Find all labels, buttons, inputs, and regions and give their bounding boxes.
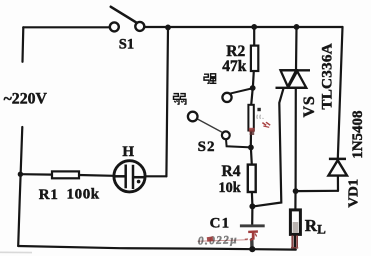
svg-text:R1: R1 [39, 187, 59, 203]
svg-text:S1: S1 [119, 36, 134, 52]
svg-text:1N5408: 1N5408 [350, 110, 366, 158]
svg-text:S2: S2 [198, 139, 216, 155]
svg-text:100k: 100k [67, 187, 100, 203]
svg-text:10k: 10k [219, 180, 241, 196]
svg-text:C1: C1 [210, 216, 231, 232]
svg-text:R4: R4 [222, 163, 241, 180]
svg-text:0.022μ: 0.022μ [198, 234, 238, 247]
svg-text:TLC336A: TLC336A [318, 43, 335, 109]
svg-text:VD1: VD1 [347, 179, 362, 208]
svg-text:47k: 47k [222, 58, 247, 75]
svg-text:H: H [122, 144, 134, 160]
svg-text:VS: VS [301, 95, 318, 117]
svg-text:~220V: ~220V [4, 90, 48, 107]
